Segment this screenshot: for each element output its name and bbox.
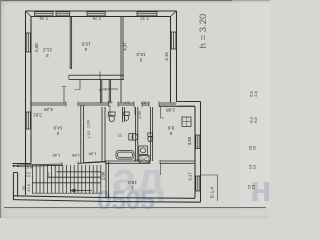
- svg-text:13: 13: [251, 184, 256, 189]
- svg-text:4,29: 4,29: [44, 107, 53, 112]
- svg-text:0,7: 0,7: [125, 101, 130, 105]
- svg-text:12: 12: [252, 164, 257, 169]
- svg-text:3,37: 3,37: [140, 16, 149, 21]
- svg-text:3,50: 3,50: [187, 136, 192, 145]
- svg-text:1: 1: [131, 186, 134, 191]
- svg-text:2,80: 2,80: [101, 171, 106, 180]
- svg-text:18,0: 18,0: [128, 180, 137, 185]
- svg-text:1,95: 1,95: [71, 153, 80, 158]
- svg-text:1,45: 1,45: [52, 153, 61, 158]
- svg-text:15: 15: [252, 145, 257, 150]
- svg-text:0,9: 0,9: [108, 100, 113, 104]
- svg-text:17,6: 17,6: [26, 183, 31, 192]
- svg-text:4,37: 4,37: [123, 42, 128, 51]
- svg-text:1,45: 1,45: [88, 151, 97, 156]
- svg-text:h = 3.20: h = 3.20: [198, 14, 209, 49]
- svg-text:15,3: 15,3: [136, 52, 145, 57]
- svg-text:3,39: 3,39: [39, 15, 48, 20]
- svg-text:5,45: 5,45: [133, 158, 142, 163]
- svg-text:9,9: 9,9: [167, 126, 174, 131]
- svg-text:1,00: 1,00: [138, 111, 142, 118]
- svg-text:2,00: 2,00: [86, 120, 90, 127]
- svg-text:16,5: 16,5: [81, 42, 90, 47]
- svg-text:14,0: 14,0: [53, 126, 62, 131]
- svg-text:2: 2: [56, 131, 59, 136]
- svg-text:3,17: 3,17: [188, 172, 193, 181]
- svg-text:1,47: 1,47: [98, 88, 107, 93]
- svg-text:2,88: 2,88: [166, 108, 175, 113]
- svg-text:3: 3: [46, 53, 49, 58]
- svg-text:5: 5: [139, 58, 142, 63]
- svg-text:6: 6: [169, 131, 172, 136]
- svg-text:0,7: 0,7: [141, 101, 146, 105]
- svg-text:2,4: 2,4: [253, 90, 258, 96]
- svg-text:6,07: 6,07: [24, 165, 33, 170]
- svg-text:6,5: 6,5: [253, 116, 258, 122]
- svg-text:21,2: 21,2: [43, 48, 52, 53]
- svg-text:5,90: 5,90: [34, 43, 39, 52]
- svg-text:Б-1,4: Б-1,4: [210, 187, 215, 198]
- svg-text:3,28: 3,28: [92, 15, 101, 20]
- svg-text:3,52: 3,52: [33, 112, 42, 117]
- svg-text:3,15: 3,15: [164, 52, 169, 61]
- svg-text:4: 4: [84, 47, 87, 52]
- svg-text:1,10: 1,10: [87, 131, 91, 138]
